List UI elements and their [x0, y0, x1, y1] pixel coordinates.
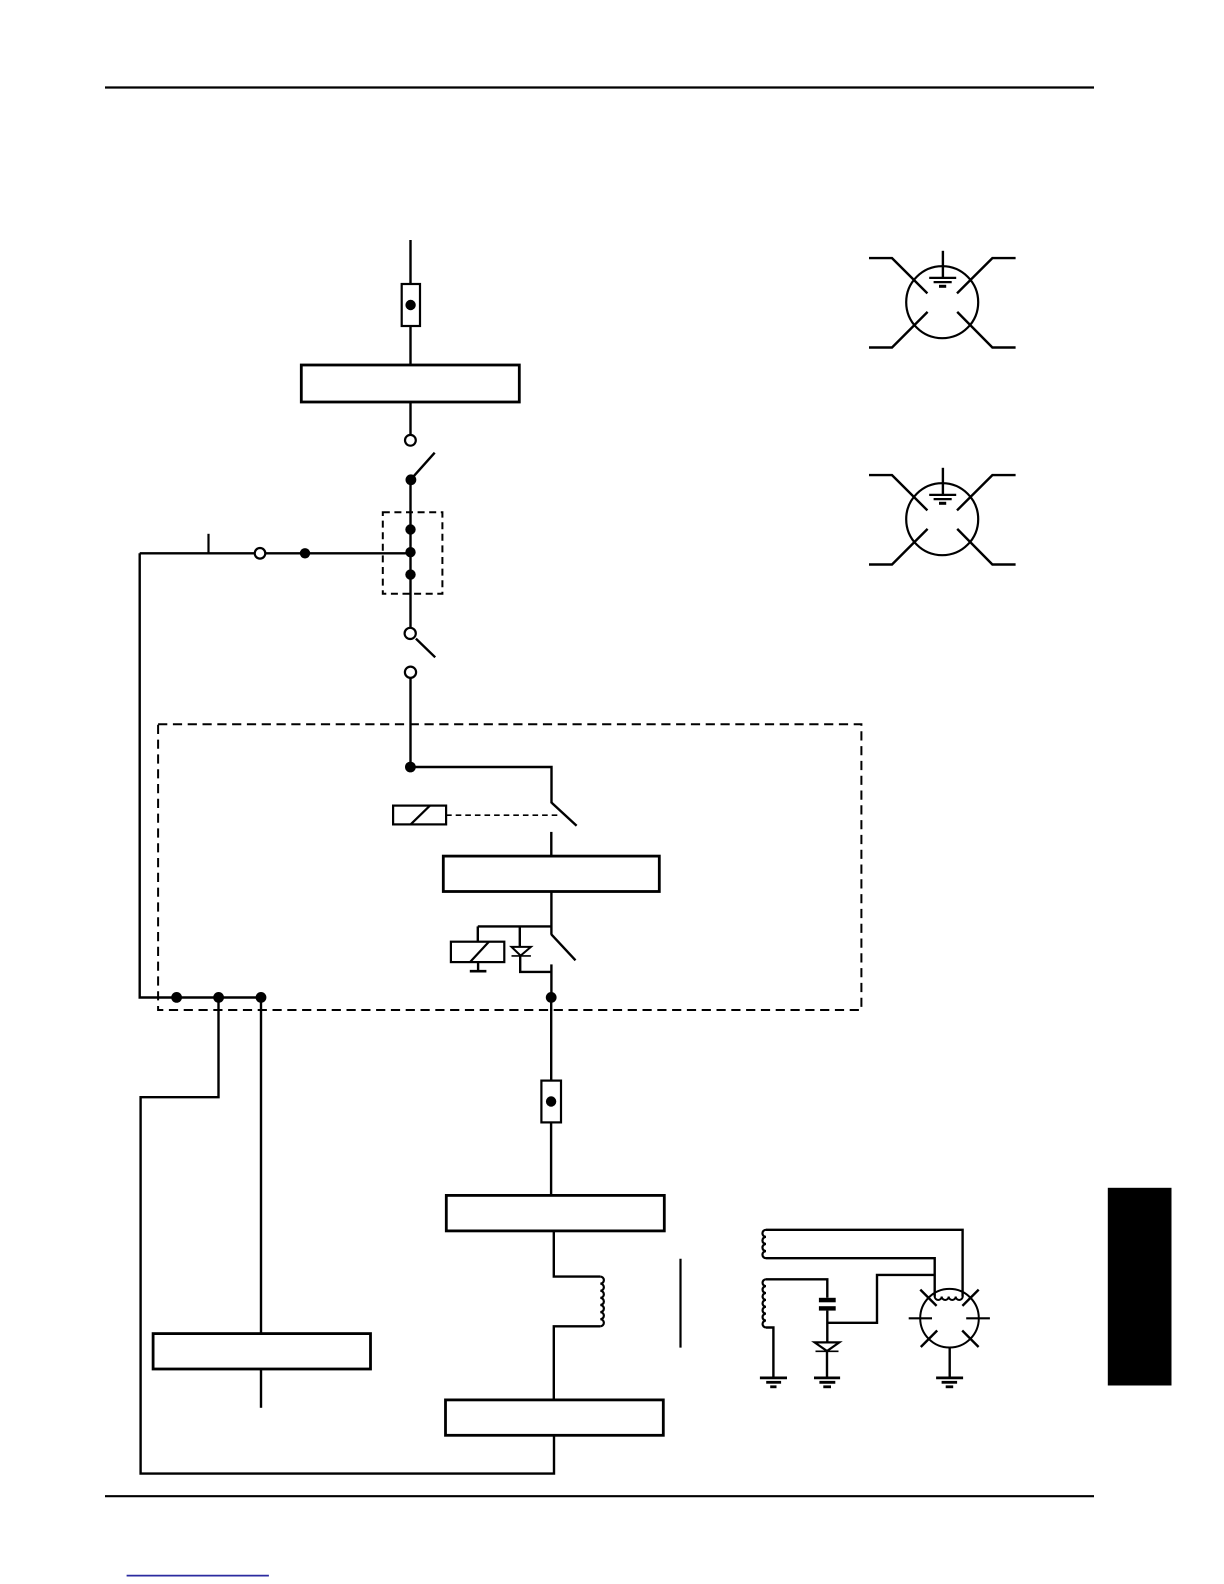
lamp L1 pin tick east [966, 1317, 990, 1319]
connector dashed box D1 [383, 512, 443, 594]
V1 ground bar 3 [939, 285, 946, 288]
block B2 (label box) [443, 856, 659, 891]
wire: F2 to block B3 [550, 1122, 552, 1195]
ground G1 bar 1 [760, 1377, 787, 1380]
V2 lead bottom-left [869, 529, 928, 565]
wire: bus dot 3 down to block B5 [260, 997, 262, 1333]
wire: T1 bottom to lamp heater left [766, 1258, 935, 1296]
diode D3 anode lead [519, 926, 521, 947]
wire: AC feed into fuse F1 [409, 240, 411, 284]
relay coil K1 box [393, 806, 446, 825]
relay coil K2 chassis bar [470, 970, 487, 973]
mechanical dashed link K1 to S3 [446, 814, 559, 816]
relay coil K2 diagonal [470, 942, 489, 962]
bus junction dot 3 [256, 992, 267, 1003]
V1 ground bar 1 [929, 277, 956, 279]
ground G2 bar 1 [814, 1377, 840, 1380]
switch S2 lower contact [405, 667, 416, 678]
diode D3 cathode bar [512, 955, 531, 957]
fuse F2 element dot [546, 1096, 556, 1106]
diode D4 cathode lead [826, 1351, 828, 1378]
wire: B1 to switch S1 [409, 402, 411, 434]
heater coil winding [600, 1277, 604, 1327]
V2 ground bar 1 [929, 494, 956, 496]
wire: branch to relay K2 and diode [478, 925, 552, 927]
capacitor C1 bottom plate [819, 1306, 836, 1310]
block B1 (label box) [301, 365, 519, 402]
relay coil K2 lower lead [477, 962, 479, 971]
relay coil K1 diagonal [411, 806, 430, 825]
relay contact S3 lower lead [550, 832, 552, 856]
left bus wire from C1 branch [140, 553, 261, 997]
block B4 (label box) [446, 1400, 664, 1435]
transformer T1 primary winding [762, 1230, 766, 1258]
return wire: B4 to left bus [141, 997, 554, 1473]
connector pin dot 1 [405, 524, 415, 534]
V2 internal ground stem [942, 468, 944, 495]
relay contact S3 blade [552, 803, 577, 826]
wire: branch from pin 2 to open contact C1 [266, 552, 408, 554]
wire: heater coil to block B4 [554, 1326, 601, 1400]
fuse F1 body [402, 284, 420, 326]
diode D4 cathode bar [816, 1350, 839, 1352]
junction dot J2 [405, 762, 416, 773]
lamp L1 envelope [920, 1289, 979, 1348]
bus junction dot 2 [213, 992, 224, 1003]
V1 lead bottom-left [869, 312, 928, 348]
diode D3 cathode lead [520, 956, 551, 972]
V1 lead top-left [869, 258, 927, 293]
ground G1 bar 3 [770, 1385, 776, 1388]
diode D3 triangle [512, 947, 531, 956]
wire: S1 through connector D1 to switch S2 [409, 483, 411, 627]
switch S1 blade [412, 453, 435, 479]
wire: fuse F1 to block B1 [409, 326, 411, 365]
footer link underline [127, 1575, 269, 1577]
stub below block B5 [260, 1369, 262, 1408]
fuse F2 body [541, 1081, 561, 1123]
ground G3 bar 1 [936, 1377, 963, 1380]
divider line (text column rule) [679, 1259, 681, 1348]
thumb index tab [1108, 1188, 1172, 1386]
ground G3 bar 2 [942, 1381, 958, 1384]
lamp L1 pin tick north-east [962, 1290, 978, 1306]
lamp L1 pin tick south-west [921, 1331, 937, 1348]
fuse F1 element dot [405, 300, 415, 310]
V2 lead top-right [957, 475, 1016, 510]
wire: B2 down to contact S4 [550, 892, 552, 935]
wire: B3 down to heater coil [554, 1231, 601, 1277]
lamp L1 pin tick south-east [962, 1331, 978, 1348]
ground G2 bar 3 [823, 1385, 831, 1388]
wire: T2 top to capacitor [766, 1279, 827, 1298]
diode D4 triangle [815, 1342, 840, 1351]
wire: J3 down to fuse F2 [550, 997, 552, 1080]
V1 lead bottom-right [957, 312, 1015, 348]
wire: C1 to left bus corner [140, 552, 255, 554]
junction dot J3 [546, 992, 557, 1003]
V1 internal ground stem [942, 251, 944, 278]
V1 ground bar 2 [934, 281, 952, 283]
V2 lead bottom-right [957, 529, 1015, 565]
lamp L1 ground stem [949, 1348, 951, 1378]
connector pin dot 2 [405, 547, 415, 557]
switch S1 fixed contact [405, 435, 416, 446]
wire: capacitor to diode D4 [826, 1311, 828, 1343]
wire: T1 top to lamp heater right [766, 1230, 963, 1297]
ground G3 bar 3 [946, 1385, 954, 1388]
block B3 (label box) [446, 1195, 664, 1231]
open contact C1 [255, 548, 266, 559]
contact S4 blade [551, 934, 575, 960]
lamp L1 pin tick west [909, 1317, 932, 1319]
block B5 (label box) [153, 1334, 370, 1369]
bottom rule [105, 1495, 1094, 1497]
contact S4 lower lead [550, 964, 552, 997]
bus junction dot 1 [171, 992, 182, 1003]
switch S1 hinge dot [406, 474, 417, 485]
capacitor C1 top plate [819, 1298, 836, 1303]
lamp L1 pin tick north-west [920, 1290, 936, 1306]
wire: J2 right and down to relay contact S3 [410, 767, 551, 803]
relay coil K2 upper lead [477, 926, 479, 941]
V1 lead top-right [957, 258, 1016, 293]
wire: capacitor tee to heater left lead [827, 1275, 934, 1323]
tick mark on branch wire [207, 534, 209, 554]
ground G1 bar 2 [766, 1381, 781, 1384]
relay coil K2 box [451, 942, 504, 962]
enclosure dashed rect D2 [158, 724, 861, 1010]
V2 lead top-left [869, 475, 927, 510]
tube symbol V2 envelope [906, 483, 978, 555]
wire: S2 down into enclosure D2 [409, 678, 411, 767]
top rule [105, 86, 1094, 88]
connector pin dot 3 [405, 569, 415, 579]
wire: T2 bottom to ground G1 [766, 1328, 773, 1378]
switch S2 blade [416, 639, 435, 658]
transformer T2 secondary winding [763, 1279, 766, 1327]
ground G2 bar 2 [819, 1381, 835, 1384]
junction dot J1 on branch [300, 548, 310, 558]
V2 ground bar 3 [939, 502, 946, 505]
V2 ground bar 2 [934, 498, 952, 500]
tube symbol V1 envelope [906, 266, 978, 338]
lamp L1 heater filament [935, 1297, 963, 1301]
switch S2 upper contact [405, 628, 416, 639]
